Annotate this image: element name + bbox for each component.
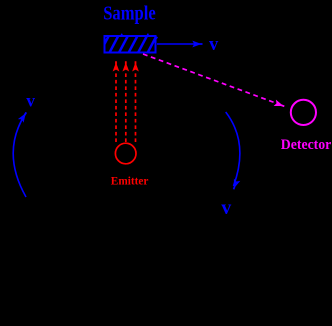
hatch overshoot nubs <box>121 34 122 36</box>
ray 1 <box>115 73 117 142</box>
svg-text:v: v <box>26 90 35 110</box>
velocity arrow (sample, to the right) <box>157 41 203 48</box>
svg-text:v: v <box>221 197 231 219</box>
svg-text:Detector: Detector <box>281 137 332 153</box>
svg-text:v: v <box>209 35 219 55</box>
svg-text:Emitter: Emitter <box>111 175 149 187</box>
rotation arc left (counterclockwise, arrow up) <box>13 112 27 197</box>
detector circle <box>291 100 316 125</box>
ray 2 <box>125 73 127 142</box>
gamma ray to detector (magenta dashed arrow) <box>143 54 285 107</box>
sample slab (hatched rectangle) <box>99 34 157 55</box>
emitted gamma rays (three red dashed arrows up) <box>113 61 139 142</box>
emitter circle <box>115 143 136 164</box>
ray 3 <box>135 73 137 142</box>
svg-text:Sample: Sample <box>103 3 156 24</box>
rotation arc right (arrow down) <box>226 112 241 190</box>
